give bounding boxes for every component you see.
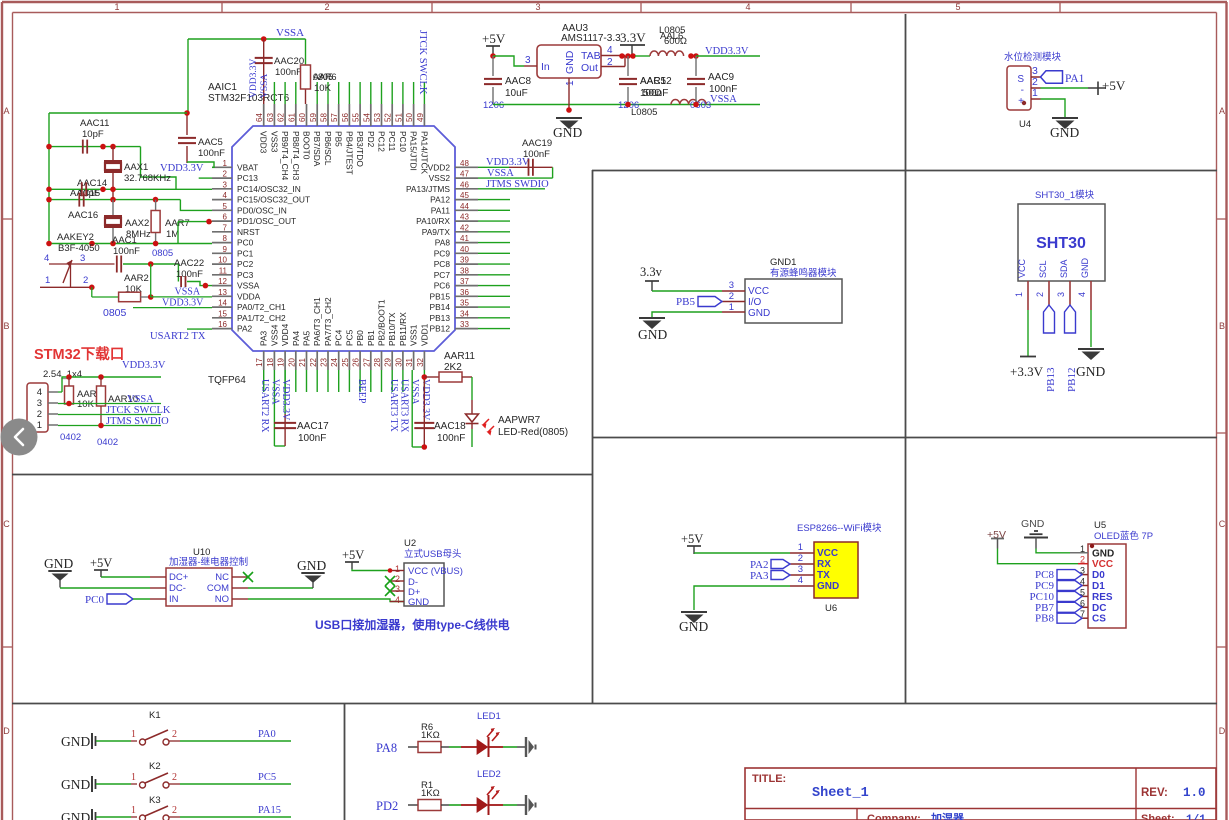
svg-text:47: 47 (460, 170, 469, 179)
svg-text:63: 63 (266, 113, 275, 122)
svg-text:10uF: 10uF (505, 88, 528, 99)
svg-text:1: 1 (395, 564, 400, 574)
svg-text:BEEP: BEEP (356, 379, 367, 404)
svg-text:PD2: PD2 (376, 799, 398, 813)
wire green stubs right of right pins (478, 200, 510, 329)
ground symbol water module (1050, 118, 1079, 140)
svg-text:1: 1 (131, 772, 136, 783)
svg-text:4: 4 (745, 2, 750, 12)
svg-text:48: 48 (460, 159, 469, 168)
svg-text:PB12: PB12 (430, 324, 451, 334)
svg-text:PA1: PA1 (1065, 73, 1085, 85)
junction dot at AAC5 top (184, 110, 190, 116)
ESP pin 3 lead (790, 564, 814, 575)
svg-text:PB13: PB13 (1045, 367, 1057, 392)
svg-text:水位检测模块: 水位检测模块 (1004, 51, 1062, 63)
capacitor AAC11 10pF row (49, 118, 176, 189)
resistor AAR9 10K vertical (60, 377, 102, 443)
flag PB12 up (1065, 305, 1079, 392)
wire green stubs above top pins (274, 82, 424, 104)
svg-text:30: 30 (394, 357, 403, 366)
svg-text:+3.3V: +3.3V (1010, 364, 1044, 379)
net VSSA top wire (188, 27, 306, 113)
net label JTCK SWCLK download row (58, 405, 171, 416)
switch AAKEY2 B3F-4050 (40, 232, 115, 287)
svg-text:RES: RES (1092, 592, 1113, 603)
junction dot OLED pin1 (1090, 544, 1094, 548)
svg-text:TAB: TAB (581, 50, 601, 62)
title block (745, 768, 1216, 820)
svg-text:PB2/BOOT1: PB2/BOOT1 (377, 299, 387, 346)
net label VDD3.3V download port (58, 360, 166, 392)
svg-text:RX: RX (817, 559, 831, 570)
svg-text:43: 43 (460, 213, 469, 222)
capacitor AAC19 100nF inline pin48 (509, 138, 553, 176)
junction dots regulator output node (619, 53, 636, 59)
svg-text:5: 5 (955, 2, 960, 12)
junction dot USB pin1 (388, 568, 393, 573)
svg-text:3: 3 (1056, 292, 1066, 297)
svg-text:USART2 RX: USART2 RX (259, 379, 270, 433)
svg-text:4: 4 (798, 575, 803, 586)
svg-text:COM: COM (207, 583, 229, 594)
wire +5V to regulator In (493, 56, 524, 66)
label GND OLED top (1021, 518, 1048, 549)
svg-text:AAR6: AAR6 (313, 72, 337, 82)
svg-text:PC12: PC12 (377, 131, 387, 152)
USB pin 1 lead (390, 564, 404, 574)
svg-text:52: 52 (384, 113, 393, 122)
capacitor AAC14 row (49, 178, 212, 199)
svg-text:PD1/OSC_OUT: PD1/OSC_OUT (237, 216, 296, 226)
U4 pin 1 lead (1031, 87, 1041, 99)
U3 pin 2 Out lead (601, 56, 625, 69)
U1 right pins 48-33 (406, 159, 478, 334)
junction dot AAR10 bottom (98, 423, 104, 429)
capacitor AAC18 100nF with ground loop (412, 370, 466, 447)
net label VSSA download row (58, 394, 161, 405)
svg-text:2: 2 (172, 772, 177, 783)
svg-text:GND: GND (1050, 125, 1079, 140)
svg-text:VDD3.3V: VDD3.3V (280, 379, 291, 421)
switch K3 row (61, 795, 291, 820)
svg-text:GND: GND (1080, 258, 1090, 279)
svg-text:AAPWR7: AAPWR7 (498, 415, 541, 426)
svg-text:REV:: REV: (1141, 787, 1168, 799)
wire NO to USB GND pin (248, 599, 404, 602)
flag PA1 (1041, 71, 1085, 85)
power flag +5V ESP (681, 532, 703, 554)
svg-text:-: - (1021, 85, 1024, 96)
svg-text:L0805: L0805 (631, 107, 657, 118)
svg-text:GND: GND (297, 558, 326, 573)
ground symbol ESP (679, 612, 708, 634)
svg-text:PA2: PA2 (237, 324, 253, 334)
svg-text:PA4: PA4 (291, 330, 301, 346)
svg-text:600Ω: 600Ω (664, 36, 687, 47)
resistor AAR11 2K2 (424, 351, 475, 382)
svg-text:OLED蓝色 7P: OLED蓝色 7P (1094, 530, 1153, 542)
svg-text:PA12: PA12 (430, 195, 450, 205)
svg-text:4: 4 (1077, 292, 1087, 297)
svg-text:PA7/T3_CH2: PA7/T3_CH2 (323, 297, 333, 346)
svg-text:VDD3.3V: VDD3.3V (162, 298, 204, 309)
svg-text:4: 4 (223, 191, 228, 200)
svg-text:D: D (3, 726, 10, 736)
svg-text:59: 59 (309, 113, 318, 122)
relay NO lead (232, 598, 248, 600)
capacitor AAC5 100nF near pin1 (178, 113, 225, 163)
wire COM to GND symbol (248, 587, 313, 589)
svg-text:VDD3.3V: VDD3.3V (420, 379, 431, 421)
svg-text:AAC16: AAC16 (68, 210, 98, 221)
svg-text:10K: 10K (314, 83, 332, 94)
svg-text:VSSA: VSSA (487, 168, 514, 179)
svg-text:34: 34 (460, 309, 469, 318)
capacitor AAC16 row (49, 193, 212, 221)
svg-text:PB1: PB1 (366, 330, 376, 346)
svg-text:PA10/RX: PA10/RX (416, 216, 450, 226)
svg-text:31: 31 (405, 357, 414, 366)
svg-text:VCC: VCC (817, 548, 838, 559)
svg-text:PA11: PA11 (431, 205, 451, 215)
designator GND1 buzzer (770, 257, 837, 279)
svg-text:22: 22 (309, 357, 318, 366)
svg-text:U6: U6 (825, 603, 837, 614)
net label VSSA at pin 13 (151, 287, 212, 298)
power flag +5V relay (90, 556, 112, 577)
svg-text:GND: GND (564, 50, 576, 74)
svg-text:PB0: PB0 (355, 330, 365, 346)
svg-text:VCC: VCC (1092, 559, 1113, 570)
svg-text:GND: GND (44, 556, 73, 571)
wire AAR2 up to AAC1 node (150, 264, 152, 297)
svg-text:23: 23 (320, 357, 329, 366)
svg-text:VDD3.3V: VDD3.3V (122, 360, 166, 371)
svg-text:PB9/T4_CH4: PB9/T4_CH4 (280, 131, 290, 181)
svg-text:AAIC1: AAIC1 (208, 82, 237, 93)
svg-text:12: 12 (218, 277, 227, 286)
svg-text:DC: DC (1092, 603, 1106, 614)
svg-text:54: 54 (362, 113, 371, 122)
svg-text:PA3: PA3 (750, 570, 769, 582)
svg-text:PD0/OSC_IN: PD0/OSC_IN (237, 205, 287, 215)
svg-text:VSSA: VSSA (175, 287, 201, 298)
svg-text:1: 1 (37, 420, 42, 431)
flag PA2 (750, 559, 790, 571)
svg-text:AAR2: AAR2 (124, 273, 149, 284)
svg-text:AAC5: AAC5 (198, 137, 223, 148)
svg-text:D1: D1 (1092, 581, 1105, 592)
svg-text:28: 28 (373, 357, 382, 366)
svg-text:VBAT: VBAT (237, 162, 258, 172)
svg-text:38: 38 (460, 266, 469, 275)
connector U2 USB body (404, 538, 463, 608)
net label VDD3.3V regulator output (696, 46, 760, 57)
wire AAC5 to pin 1 (187, 162, 214, 167)
U3 GND pin 1 lead (565, 78, 576, 110)
wire green stubs below bottom pins (264, 370, 425, 392)
svg-text:AAC11: AAC11 (80, 118, 109, 129)
svg-text:+5V: +5V (681, 532, 703, 546)
wire OLED +5V to pin2 (998, 549, 1079, 564)
svg-text:PC8: PC8 (434, 259, 451, 269)
svg-text:PC4: PC4 (334, 329, 344, 346)
SHT30 pin 3 lead (1056, 281, 1070, 305)
svg-text:GND: GND (408, 597, 429, 608)
svg-text:VSSA: VSSA (276, 27, 304, 39)
OLED pin 7 CS (1080, 609, 1106, 625)
svg-text:0805: 0805 (152, 248, 173, 259)
OLED pin 2 VCC (1078, 555, 1113, 571)
wire regulator ground bus (493, 104, 760, 106)
svg-text:D0: D0 (1092, 570, 1105, 581)
flag PA3 (750, 570, 790, 582)
net label JTMS SWDIO at pin 46 (478, 179, 549, 190)
svg-text:PC0: PC0 (237, 238, 254, 248)
svg-text:U5: U5 (1094, 520, 1106, 531)
svg-text:PA9/TX: PA9/TX (422, 227, 451, 237)
svg-text:PC9: PC9 (434, 248, 451, 258)
junction dot mid cap bottom (625, 102, 631, 108)
svg-text:PC3: PC3 (237, 270, 254, 280)
svg-text:B: B (3, 321, 9, 331)
svg-text:GND: GND (61, 734, 90, 749)
svg-text:3: 3 (535, 2, 540, 12)
svg-text:GND: GND (1092, 548, 1114, 559)
svg-text:AAC20: AAC20 (274, 56, 304, 67)
wire row PC0 / pin8 (49, 222, 212, 244)
power flag +5V OLED (987, 529, 1006, 549)
svg-text:10: 10 (218, 256, 227, 265)
svg-text:+5V: +5V (342, 548, 364, 562)
svg-text:GND: GND (679, 619, 708, 634)
svg-text:6: 6 (223, 213, 228, 222)
svg-text:AAC1: AAC1 (112, 235, 137, 246)
svg-text:AAC17: AAC17 (297, 421, 329, 432)
svg-text:37: 37 (460, 277, 469, 286)
svg-text:PB3/TDO: PB3/TDO (355, 131, 365, 167)
svg-text:VDD3: VDD3 (259, 131, 269, 154)
svg-text:PB5: PB5 (676, 296, 695, 308)
svg-text:GND: GND (61, 810, 90, 820)
svg-text:PC7: PC7 (434, 270, 451, 280)
svg-text:18: 18 (266, 357, 275, 366)
SHT30 pin 1 lead (1014, 281, 1028, 310)
svg-text:32: 32 (416, 357, 425, 366)
svg-text:PC6: PC6 (434, 281, 451, 291)
connector U4 water sensor (1007, 66, 1031, 130)
svg-text:33: 33 (460, 320, 469, 329)
svg-text:TX: TX (817, 570, 830, 581)
relay NC lead with no-connect X (232, 572, 253, 582)
svg-text:C: C (3, 519, 10, 529)
relay IN lead (150, 598, 166, 600)
svg-text:42: 42 (460, 223, 469, 232)
ESP pin 2 lead (790, 553, 814, 564)
wire ESP GND down (694, 586, 790, 610)
wire buzzer GND (652, 312, 722, 318)
buzzer pin 2 lead (722, 291, 745, 302)
svg-text:19: 19 (277, 357, 286, 366)
svg-text:PA8: PA8 (435, 238, 451, 248)
svg-text:29: 29 (384, 357, 393, 366)
U3 pin 3 In lead (524, 55, 537, 66)
capacitor AAC17 100nF with ground loop (274, 370, 329, 446)
U1 left pins 1-16 (212, 159, 310, 334)
module U6 ESP8266 yellow body (814, 542, 858, 614)
junction dot pin32 top node (422, 374, 428, 380)
svg-text:2: 2 (83, 275, 88, 286)
ground symbol SHT30 (1076, 349, 1105, 379)
svg-text:LED1: LED1 (477, 711, 501, 722)
svg-text:Out: Out (581, 62, 598, 74)
svg-text:AAR5: AAR5 (640, 76, 667, 87)
capacitor AAC12 100nF mid (618, 56, 672, 118)
svg-text:1: 1 (798, 542, 803, 553)
capacitor AAC22 100nF (174, 258, 212, 287)
svg-text:PB8/T4_CH3: PB8/T4_CH3 (291, 131, 301, 181)
svg-text:VDDA: VDDA (237, 291, 261, 301)
junction dot AAR2 right (148, 294, 154, 300)
svg-text:100nF: 100nF (176, 269, 203, 280)
svg-text:PC13: PC13 (237, 173, 258, 183)
junction dots row2 (46, 187, 116, 193)
ground symbol relay DC- (44, 556, 73, 588)
relay DC- lead (150, 587, 166, 589)
svg-text:GND: GND (553, 125, 582, 140)
svg-text:100nF: 100nF (437, 433, 465, 444)
svg-text:K3: K3 (149, 795, 161, 806)
U1 bottom pins 17-32 (255, 297, 429, 370)
power flag 3.3V (620, 30, 646, 56)
svg-text:VSSA: VSSA (270, 379, 281, 405)
svg-text:GND: GND (638, 327, 667, 342)
svg-text:VDD1: VDD1 (419, 323, 429, 346)
svg-text:51: 51 (394, 113, 403, 122)
svg-text:100nF: 100nF (523, 149, 550, 160)
svg-text:AAC8: AAC8 (505, 76, 532, 87)
svg-text:3: 3 (223, 180, 228, 189)
svg-text:2: 2 (1035, 292, 1045, 297)
svg-text:40: 40 (460, 245, 469, 254)
crystal AAX1 32.768KHz (104, 147, 171, 200)
svg-text:2: 2 (172, 729, 177, 740)
svg-text:Sheet_1: Sheet_1 (812, 786, 869, 801)
svg-text:24: 24 (330, 357, 339, 366)
svg-text:PA15/JTDI: PA15/JTDI (409, 131, 419, 171)
net label JTMS SWDIO download row (58, 416, 169, 427)
svg-text:0603: 0603 (690, 100, 711, 111)
svg-text:VDD2: VDD2 (428, 162, 451, 172)
svg-text:PB15: PB15 (430, 291, 451, 301)
svg-text:SHT30_1模块: SHT30_1模块 (1035, 189, 1095, 201)
svg-text:3.3v: 3.3v (640, 265, 663, 279)
svg-text:DC+: DC+ (169, 572, 189, 583)
wire OLED GND to pin1 (1036, 549, 1070, 553)
svg-text:2: 2 (172, 805, 177, 816)
svg-text:1: 1 (131, 805, 136, 816)
svg-text:3: 3 (798, 564, 803, 575)
svg-text:32.768KHz: 32.768KHz (124, 173, 171, 184)
capacitor AAC8 10uF (483, 56, 532, 111)
OLED pin 1 GND (1070, 544, 1114, 560)
svg-text:25: 25 (341, 357, 350, 366)
inductor AAL5 on ground bus (671, 100, 706, 105)
svg-text:B: B (1219, 321, 1225, 331)
svg-text:TQFP64: TQFP64 (208, 375, 246, 386)
SHT30 pin 2 lead (1035, 281, 1049, 305)
svg-text:CS: CS (1092, 614, 1106, 625)
svg-text:PC2: PC2 (237, 259, 254, 269)
power bar +3.3V (1010, 357, 1044, 380)
svg-text:PB13: PB13 (430, 313, 451, 323)
svg-text:BOOT0: BOOT0 (302, 131, 312, 160)
svg-text:1: 1 (565, 80, 576, 86)
svg-text:AAC9: AAC9 (708, 72, 735, 83)
flag PC0 (85, 594, 150, 606)
svg-text:VDD4: VDD4 (280, 323, 290, 346)
flag PB13 up (1044, 305, 1058, 392)
svg-text:61: 61 (287, 113, 296, 122)
svg-text:AMS1117-3.3: AMS1117-3.3 (561, 33, 621, 44)
power flag +5V water module (1088, 78, 1126, 95)
switch K1 row (61, 710, 291, 749)
wire U4 to +5V (1041, 87, 1089, 89)
OLED pin 4 D1 (1080, 577, 1105, 593)
svg-text:PB11/RX: PB11/RX (398, 312, 408, 346)
svg-text:A: A (1219, 106, 1225, 116)
svg-text:2: 2 (395, 574, 400, 584)
svg-text:Sheet:: Sheet: (1141, 813, 1175, 820)
svg-text:PC14/OSC32_IN: PC14/OSC32_IN (237, 184, 301, 194)
svg-text:PA5: PA5 (302, 330, 312, 346)
module U_SHT30 body (1017, 204, 1105, 281)
junction dots row3 (46, 197, 158, 203)
svg-text:AAC19: AAC19 (522, 138, 552, 149)
svg-text:PB6/SCL: PB6/SCL (323, 131, 333, 166)
svg-text:21: 21 (298, 357, 307, 366)
svg-text:2: 2 (37, 409, 42, 420)
svg-text:100nF: 100nF (113, 246, 140, 257)
svg-text:PC5: PC5 (344, 329, 354, 346)
svg-text:100nF: 100nF (275, 67, 302, 78)
wire +5V to ESP VCC (694, 552, 790, 554)
svg-text:VSSA: VSSA (260, 74, 270, 98)
svg-text:PC15/OSC32_OUT: PC15/OSC32_OUT (237, 195, 310, 205)
svg-text:46: 46 (460, 180, 469, 189)
net label USART2 TX at pin 16 (150, 329, 212, 342)
svg-text:2: 2 (798, 553, 803, 564)
junction dot switch pin2 (89, 285, 95, 291)
OLED pin 3 D0 (1080, 566, 1105, 582)
svg-text:USART2 TX: USART2 TX (150, 331, 206, 342)
svg-text:+5V: +5V (90, 556, 112, 570)
svg-text:3: 3 (525, 55, 531, 66)
svg-text:JTCK SWCLK: JTCK SWCLK (417, 30, 428, 95)
svg-text:1.0: 1.0 (1183, 786, 1206, 800)
op-amp U1 AAIC1 STM32F103RCT6 body (TQFP64 octagon) (232, 126, 455, 351)
svg-text:26: 26 (352, 357, 361, 366)
ground symbol regulator GND (553, 118, 582, 140)
svg-text:50: 50 (405, 113, 414, 122)
svg-text:PB4/JTEST: PB4/JTEST (344, 131, 354, 175)
ground symbol COM (297, 558, 326, 588)
svg-text:PC10: PC10 (398, 131, 408, 152)
svg-text:35: 35 (460, 299, 469, 308)
junction dot GND node (566, 107, 572, 113)
svg-text:55: 55 (352, 113, 361, 122)
